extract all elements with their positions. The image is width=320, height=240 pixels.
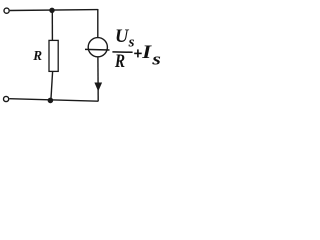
wire right vertical top: [97, 9, 99, 37]
svg-text:R: R: [114, 51, 125, 72]
current source U1 circle: [88, 38, 107, 57]
label s subscript of Is: [151, 51, 161, 69]
current source bar: [85, 48, 110, 51]
node bottom junction: [48, 98, 54, 104]
terminal bottom-left: [4, 96, 9, 101]
wire resistor bottom: [51, 71, 53, 100]
svg-text:R: R: [32, 48, 42, 63]
wire bottom: [9, 99, 98, 102]
wire junction to resistor: [51, 11, 53, 41]
fraction bar: [112, 51, 132, 53]
wire top: [10, 9, 98, 12]
label Is: [141, 41, 152, 63]
label plus sign: [134, 49, 142, 57]
wire source bottom lead: [97, 57, 99, 101]
node top junction: [49, 8, 54, 13]
svg-text:I: I: [141, 41, 152, 63]
arrow current direction: [94, 83, 102, 92]
svg-text:s: s: [151, 51, 161, 69]
resistor R: [49, 40, 58, 71]
svg-text:s: s: [128, 35, 135, 51]
terminal top-left: [4, 8, 9, 13]
